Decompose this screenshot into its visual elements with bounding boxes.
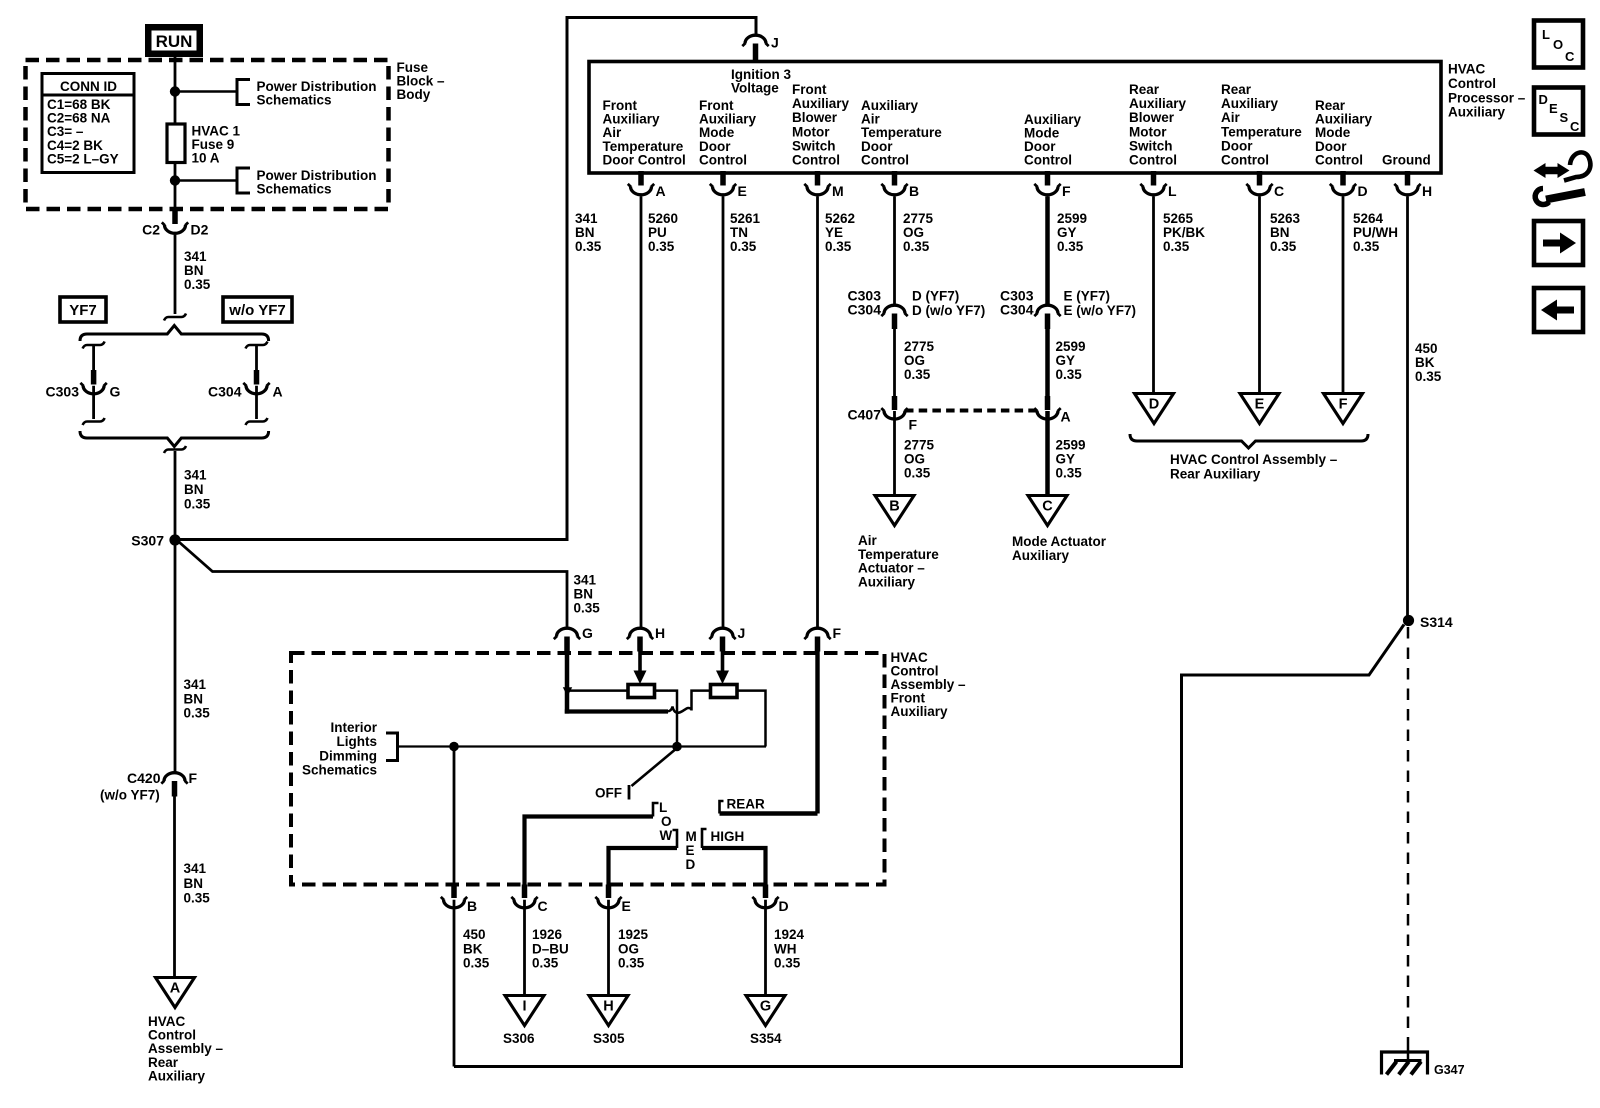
svg-text:PU: PU	[648, 225, 667, 240]
svg-text:I: I	[522, 999, 526, 1015]
svg-text:BN: BN	[184, 263, 204, 278]
svg-text:RUN: RUN	[156, 32, 193, 51]
svg-text:Switch: Switch	[792, 138, 836, 153]
svg-text:TN: TN	[730, 225, 748, 240]
svg-text:Door Control: Door Control	[603, 152, 686, 167]
svg-text:341: 341	[184, 677, 207, 692]
svg-text:Actuator –: Actuator –	[858, 561, 925, 576]
svg-text:0.35: 0.35	[1270, 239, 1297, 254]
svg-text:D: D	[779, 898, 789, 914]
svg-text:GY: GY	[1057, 225, 1077, 240]
svg-text:2775: 2775	[904, 339, 935, 354]
svg-text:GY: GY	[1056, 353, 1076, 368]
svg-text:L: L	[1542, 27, 1550, 42]
svg-text:H: H	[655, 625, 665, 641]
svg-text:E (YF7): E (YF7)	[1064, 289, 1111, 304]
svg-text:0.35: 0.35	[532, 956, 559, 971]
svg-text:C: C	[538, 898, 548, 914]
svg-text:341: 341	[184, 468, 207, 483]
svg-text:0.35: 0.35	[904, 367, 931, 382]
svg-text:C407: C407	[848, 407, 882, 423]
svg-text:YE: YE	[825, 225, 843, 240]
svg-text:0.35: 0.35	[184, 497, 211, 512]
svg-text:D (w/o YF7): D (w/o YF7)	[912, 303, 985, 318]
svg-text:Control: Control	[1129, 153, 1177, 168]
svg-text:J: J	[771, 35, 779, 51]
svg-text:Auxiliary: Auxiliary	[858, 574, 916, 589]
svg-text:M: M	[832, 183, 844, 199]
svg-text:C304: C304	[208, 384, 242, 400]
svg-text:S305: S305	[593, 1031, 625, 1046]
svg-text:A: A	[656, 183, 666, 199]
svg-text:450: 450	[463, 927, 486, 942]
svg-text:L: L	[659, 800, 667, 815]
svg-text:F: F	[1062, 183, 1071, 199]
svg-text:C2: C2	[142, 222, 160, 238]
svg-text:BN: BN	[575, 225, 595, 240]
svg-text:D2: D2	[191, 222, 209, 238]
svg-text:A: A	[273, 384, 283, 400]
svg-text:0.35: 0.35	[463, 956, 490, 971]
svg-text:Auxiliary: Auxiliary	[1448, 105, 1506, 120]
svg-text:Air: Air	[1221, 110, 1241, 125]
svg-text:W: W	[660, 828, 673, 843]
svg-text:BK: BK	[463, 941, 483, 956]
svg-text:Auxiliary: Auxiliary	[792, 96, 850, 111]
svg-text:Schematics: Schematics	[257, 93, 332, 108]
svg-text:C: C	[1565, 49, 1575, 64]
svg-text:(w/o YF7): (w/o YF7)	[100, 788, 160, 803]
svg-text:0.35: 0.35	[1415, 369, 1442, 384]
svg-text:1926: 1926	[532, 927, 563, 942]
svg-text:0.35: 0.35	[1056, 367, 1083, 382]
svg-text:S: S	[1560, 110, 1569, 125]
svg-text:Air: Air	[858, 533, 878, 548]
svg-text:D: D	[1358, 183, 1368, 199]
svg-text:Front: Front	[792, 82, 827, 97]
svg-text:2599: 2599	[1056, 339, 1086, 354]
svg-text:F: F	[1339, 397, 1348, 413]
svg-text:Control: Control	[1024, 153, 1072, 168]
svg-text:HIGH: HIGH	[711, 829, 745, 844]
svg-text:REAR: REAR	[727, 797, 766, 812]
svg-text:Control: Control	[1315, 152, 1363, 167]
svg-text:0.35: 0.35	[1057, 239, 1084, 254]
svg-text:0.35: 0.35	[618, 956, 645, 971]
svg-text:S354: S354	[750, 1031, 782, 1046]
svg-text:341: 341	[184, 861, 207, 876]
svg-text:L: L	[1168, 183, 1177, 199]
svg-text:2599: 2599	[1057, 211, 1087, 226]
svg-text:Interior: Interior	[330, 720, 377, 735]
svg-text:S314: S314	[1420, 614, 1453, 630]
svg-text:2599: 2599	[1056, 438, 1086, 453]
svg-text:Lights: Lights	[337, 734, 378, 749]
svg-text:F: F	[189, 770, 198, 786]
svg-text:OG: OG	[904, 452, 925, 467]
svg-text:Control: Control	[699, 152, 747, 167]
svg-text:C420: C420	[127, 770, 161, 786]
svg-text:2775: 2775	[903, 211, 934, 226]
svg-text:E: E	[1549, 101, 1558, 116]
svg-text:G347: G347	[1434, 1063, 1465, 1077]
svg-text:H: H	[1422, 183, 1432, 199]
svg-text:0.35: 0.35	[825, 239, 852, 254]
svg-text:E: E	[738, 183, 747, 199]
svg-text:D: D	[686, 857, 696, 872]
svg-text:Rear: Rear	[1129, 82, 1160, 97]
svg-text:Door: Door	[1221, 138, 1253, 153]
svg-text:5264: 5264	[1353, 211, 1384, 226]
svg-text:C: C	[1274, 183, 1284, 199]
svg-text:0.35: 0.35	[1163, 239, 1190, 254]
svg-text:341: 341	[574, 573, 597, 588]
svg-text:341: 341	[575, 211, 598, 226]
svg-text:0.35: 0.35	[1056, 466, 1083, 481]
svg-text:G: G	[582, 625, 593, 641]
svg-text:C5=2 L–GY: C5=2 L–GY	[47, 151, 119, 166]
svg-text:1924: 1924	[774, 927, 805, 942]
svg-text:D: D	[1539, 92, 1548, 107]
svg-text:Temperature: Temperature	[858, 547, 939, 562]
svg-text:O: O	[661, 814, 672, 829]
svg-text:F: F	[833, 625, 842, 641]
svg-text:C304: C304	[1000, 302, 1034, 318]
svg-text:E: E	[622, 898, 631, 914]
svg-text:Mode Actuator: Mode Actuator	[1012, 534, 1107, 549]
svg-text:5263: 5263	[1270, 211, 1301, 226]
svg-text:Blower: Blower	[792, 110, 838, 125]
svg-text:Auxiliary: Auxiliary	[891, 704, 949, 719]
svg-text:450: 450	[1415, 341, 1438, 356]
svg-text:A: A	[170, 981, 181, 997]
svg-text:Switch: Switch	[1129, 138, 1173, 153]
svg-text:0.35: 0.35	[575, 239, 602, 254]
svg-text:S307: S307	[131, 533, 164, 549]
svg-text:BN: BN	[574, 587, 594, 602]
svg-text:0.35: 0.35	[1353, 239, 1380, 254]
svg-text:Motor: Motor	[792, 124, 830, 139]
svg-text:Auxiliary: Auxiliary	[148, 1068, 206, 1083]
svg-text:BN: BN	[184, 876, 204, 891]
svg-text:341: 341	[184, 249, 207, 264]
svg-text:PK/BK: PK/BK	[1163, 225, 1205, 240]
svg-text:Ground: Ground	[1382, 153, 1431, 168]
svg-text:Control: Control	[1221, 153, 1269, 168]
svg-text:OFF: OFF	[595, 786, 622, 801]
svg-text:5261: 5261	[730, 211, 761, 226]
svg-text:PU/WH: PU/WH	[1353, 225, 1398, 240]
svg-text:S306: S306	[503, 1031, 535, 1046]
svg-text:Rear Auxiliary: Rear Auxiliary	[1170, 467, 1261, 482]
svg-text:B: B	[889, 499, 899, 515]
svg-text:Schematics: Schematics	[302, 763, 377, 778]
svg-text:0.35: 0.35	[184, 891, 211, 906]
svg-text:C303: C303	[46, 384, 80, 400]
svg-text:0.35: 0.35	[774, 956, 801, 971]
svg-text:G: G	[110, 384, 121, 400]
svg-text:0.35: 0.35	[648, 239, 675, 254]
svg-text:Auxiliary: Auxiliary	[1129, 96, 1187, 111]
svg-text:BK: BK	[1415, 355, 1435, 370]
svg-text:E: E	[686, 843, 695, 858]
svg-text:5265: 5265	[1163, 211, 1194, 226]
svg-text:5260: 5260	[648, 211, 678, 226]
svg-text:Control: Control	[861, 152, 909, 167]
svg-text:B: B	[467, 898, 477, 914]
svg-text:Auxiliary: Auxiliary	[1012, 548, 1070, 563]
svg-text:Control: Control	[1448, 76, 1496, 91]
svg-text:E (w/o YF7): E (w/o YF7)	[1064, 303, 1137, 318]
svg-text:Control: Control	[792, 153, 840, 168]
svg-text:10 A: 10 A	[192, 151, 220, 166]
svg-text:E: E	[1255, 397, 1265, 413]
svg-text:2775: 2775	[904, 438, 935, 453]
svg-text:Voltage: Voltage	[731, 81, 779, 96]
svg-text:5262: 5262	[825, 211, 855, 226]
svg-text:D (YF7): D (YF7)	[912, 289, 959, 304]
svg-text:H: H	[603, 999, 613, 1015]
svg-text:C: C	[1042, 499, 1053, 515]
svg-text:HVAC: HVAC	[1448, 62, 1486, 77]
svg-text:1925: 1925	[618, 927, 649, 942]
svg-text:D–BU: D–BU	[532, 941, 569, 956]
svg-text:O: O	[1553, 37, 1563, 52]
svg-text:Auxiliary: Auxiliary	[1221, 96, 1279, 111]
svg-text:G: G	[760, 999, 771, 1015]
svg-text:BN: BN	[184, 482, 204, 497]
svg-text:BN: BN	[1270, 225, 1290, 240]
svg-text:Body: Body	[397, 87, 431, 102]
svg-text:YF7: YF7	[69, 302, 97, 319]
svg-text:F: F	[909, 417, 918, 433]
svg-text:0.35: 0.35	[184, 277, 211, 292]
svg-text:B: B	[909, 183, 919, 199]
svg-text:0.35: 0.35	[730, 239, 757, 254]
svg-text:D: D	[1149, 397, 1159, 413]
svg-text:Rear: Rear	[1221, 82, 1252, 97]
svg-text:C: C	[1570, 119, 1580, 134]
svg-text:0.35: 0.35	[904, 466, 931, 481]
svg-text:C304: C304	[848, 302, 882, 318]
svg-text:GY: GY	[1056, 452, 1076, 467]
svg-text:Schematics: Schematics	[257, 182, 332, 197]
svg-text:0.35: 0.35	[903, 239, 930, 254]
svg-text:Blower: Blower	[1129, 110, 1175, 125]
svg-text:BN: BN	[184, 691, 204, 706]
svg-text:0.35: 0.35	[574, 601, 601, 616]
svg-text:Dimming: Dimming	[319, 748, 377, 763]
svg-text:M: M	[686, 829, 697, 844]
svg-text:Motor: Motor	[1129, 124, 1167, 139]
svg-text:OG: OG	[904, 353, 925, 368]
svg-text:OG: OG	[618, 941, 639, 956]
svg-text:J: J	[738, 625, 746, 641]
svg-text:HVAC Control Assembly –: HVAC Control Assembly –	[1170, 452, 1338, 467]
svg-text:A: A	[1061, 409, 1071, 425]
svg-text:Temperature: Temperature	[1221, 124, 1302, 139]
svg-text:OG: OG	[903, 225, 924, 240]
svg-text:CONN ID: CONN ID	[60, 79, 117, 94]
svg-text:Processor –: Processor –	[1448, 90, 1526, 105]
svg-text:0.35: 0.35	[184, 706, 211, 721]
svg-text:WH: WH	[774, 941, 797, 956]
svg-text:w/o YF7: w/o YF7	[228, 302, 285, 319]
